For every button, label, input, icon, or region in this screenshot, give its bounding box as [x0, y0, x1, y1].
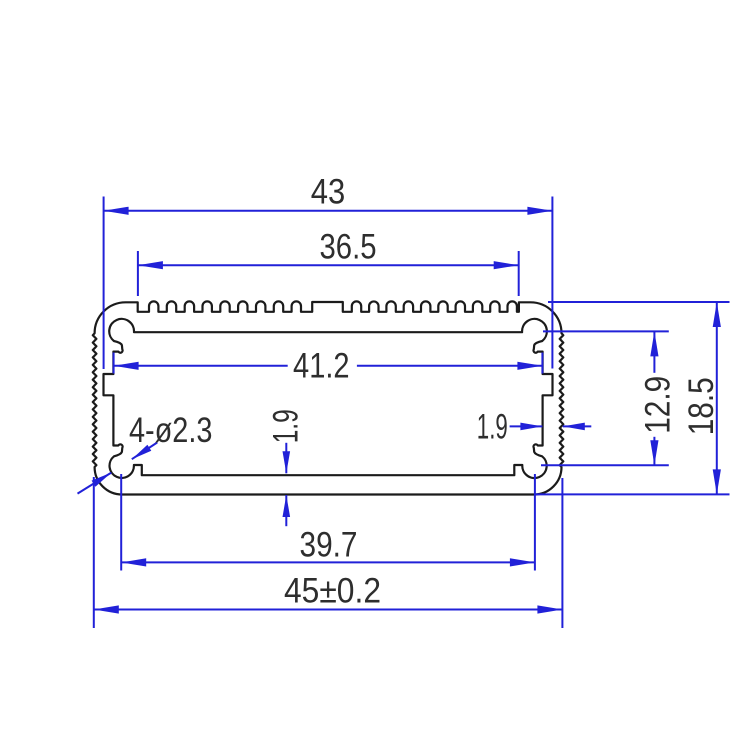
svg-text:18.5: 18.5 — [681, 377, 721, 435]
svg-text:43: 43 — [311, 172, 346, 212]
svg-text:45±0.2: 45±0.2 — [284, 571, 381, 611]
dimension 1.9 side wall — [510, 425, 543, 427]
dimension 45±0.2 — [93, 477, 95, 628]
dimension 41.2 — [113, 353, 115, 374]
svg-text:41.2: 41.2 — [293, 346, 350, 386]
enclosure outer profile — [93, 301, 564, 494]
dimension 18.5 — [548, 301, 730, 303]
svg-text:1.9: 1.9 — [265, 409, 305, 443]
dimension 39.7 — [120, 474, 122, 571]
svg-text:12.9: 12.9 — [638, 376, 678, 434]
dimension 12.9 — [543, 330, 669, 332]
enclosure inner cavity — [104, 319, 553, 478]
dimension 43 — [103, 197, 105, 370]
dimension 1.9 bottom wall — [285, 443, 287, 474]
dimension 36.5 — [137, 251, 139, 296]
svg-text:36.5: 36.5 — [320, 226, 377, 266]
svg-text:39.7: 39.7 — [300, 525, 358, 565]
leader 4-ø2.3 screw bosses — [132, 443, 157, 460]
svg-text:1.9: 1.9 — [477, 406, 508, 446]
svg-text:4-ø2.3: 4-ø2.3 — [129, 410, 213, 450]
